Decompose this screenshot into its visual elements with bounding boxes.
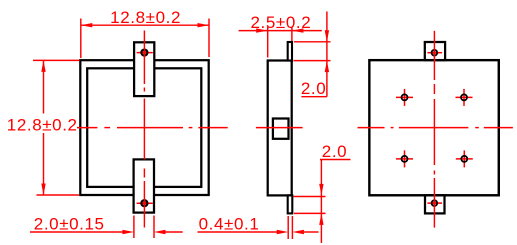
- svg-text:12.8±0.2: 12.8±0.2: [7, 116, 78, 135]
- pad circles: [402, 94, 468, 161]
- dimension 2.0 bottom pin length: [294, 160, 351, 244]
- back view bottom tab: [425, 195, 445, 213]
- dimension 0.4+-0.1 pin: leader and arrows: [198, 216, 319, 239]
- side view bottom pin: [288, 195, 293, 213]
- dimension height 12.8 left: extension lines: [33, 60, 80, 195]
- svg-text:2.0±0.15: 2.0±0.15: [34, 215, 105, 234]
- front view top tab: [134, 42, 154, 96]
- svg-text:2.0: 2.0: [322, 142, 347, 161]
- front view outer outline: [80, 60, 208, 195]
- dim left arrows: [41, 60, 45, 72]
- side view notch square: [273, 119, 289, 139]
- back vertical centerline: [433, 31, 435, 228]
- dimension 2.0 top pin length: [294, 12, 331, 97]
- back horizontal centerline: [358, 127, 513, 129]
- side view body: [268, 61, 292, 196]
- back bottom tab hole crosshair: [427, 202, 442, 204]
- dimension width 12.8 top: extension lines: [81, 19, 209, 59]
- front horizontal centerline: [77, 127, 228, 129]
- front bottom tab hole crosshair: [137, 202, 153, 204]
- back square outline redraw over tabs: [369, 60, 498, 195]
- back bottom tab hole: [432, 200, 438, 206]
- dimension 2.5+-0.2 depth: leader and arrows: [239, 27, 322, 58]
- front view bottom tab: [134, 159, 154, 212]
- back view square: [369, 60, 498, 195]
- back top tab hole: [432, 50, 438, 56]
- back top tab hole crosshair: [427, 52, 442, 54]
- front vertical centerline: [143, 31, 145, 228]
- front bottom tab hole: [141, 200, 147, 206]
- back view pads: [396, 89, 473, 167]
- svg-text:0.4±0.1: 0.4±0.1: [199, 215, 260, 234]
- dimension 2.0+-0.15 bottom tab: leader and arrows: [30, 216, 183, 239]
- svg-text:2.5±0.2: 2.5±0.2: [251, 13, 312, 32]
- svg-text:12.8±0.2: 12.8±0.2: [110, 8, 181, 27]
- svg-text:2.0: 2.0: [301, 79, 326, 98]
- front top tab hole: [141, 50, 147, 56]
- side view top pin: [288, 42, 292, 61]
- side view centerline: [256, 127, 303, 129]
- back view top tab: [425, 42, 445, 60]
- dim top arrows: [81, 23, 93, 27]
- front view inner outline: [87, 68, 201, 187]
- front top tab hole crosshair: [137, 52, 153, 54]
